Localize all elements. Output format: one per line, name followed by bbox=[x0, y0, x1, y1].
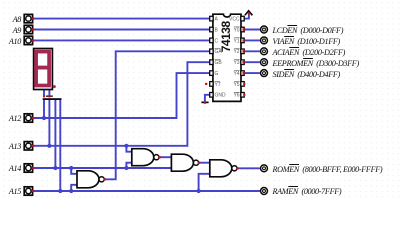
terminal RAMEN bbox=[261, 188, 268, 195]
U1 pin G2A bbox=[210, 49, 213, 54]
svg-text:GB: GB bbox=[215, 60, 223, 66]
7-segment display body bbox=[34, 49, 53, 90]
svg-text:GND: GND bbox=[215, 93, 227, 99]
svg-text:G: G bbox=[215, 71, 219, 77]
node RAMEN label bbox=[273, 186, 342, 198]
7-segment digit 8 bbox=[36, 52, 49, 86]
terminal A12 bbox=[24, 114, 34, 122]
junction A14/display bbox=[53, 166, 57, 170]
junction A14/U3 bbox=[124, 166, 128, 170]
wire A12 to G1 bbox=[34, 73, 210, 118]
wire display pin 2 bbox=[48, 90, 50, 97]
svg-text:Y3: Y3 bbox=[233, 60, 239, 66]
svg-text:Y2: Y2 bbox=[233, 49, 239, 55]
U1 pin name labels left bbox=[215, 17, 227, 99]
terminal A10 bbox=[24, 36, 34, 44]
terminal A13 bbox=[24, 142, 34, 150]
ground symbol bbox=[201, 102, 208, 104]
node A9 label bbox=[0, 25, 21, 37]
terminal A15 bbox=[24, 187, 34, 195]
U1 pin name labels right bbox=[229, 17, 240, 99]
terminal LCDEN bbox=[261, 26, 268, 33]
node A14 label bbox=[0, 163, 21, 175]
U1 pin Y6 unconnected bbox=[241, 93, 246, 98]
terminal A8 bbox=[24, 14, 34, 22]
svg-text:Y0: Y0 bbox=[233, 27, 239, 33]
node A12 label bbox=[0, 113, 21, 125]
power symbol VCC arrow bbox=[245, 11, 253, 16]
display bus bar bbox=[43, 98, 62, 100]
wire A13 tap to U3 input A bbox=[126, 146, 131, 152]
node ACIAEN label bbox=[273, 47, 346, 59]
U1 pin Y2 bbox=[241, 49, 244, 54]
svg-text:74138: 74138 bbox=[219, 21, 233, 53]
red pin-end dots bbox=[104, 12, 251, 180]
node A15 label bbox=[0, 186, 21, 198]
U1 pin overlines bbox=[215, 27, 240, 92]
wire A15 horizontal to RAMEN bbox=[34, 190, 260, 192]
wire display drop to A12 bbox=[43, 100, 45, 118]
wire display drop to A14 bbox=[54, 100, 56, 168]
junction A12/display bbox=[42, 116, 46, 120]
U1 pin Y5 unconnected bbox=[241, 82, 246, 87]
node LCDEN label bbox=[273, 25, 344, 37]
wire display drop to A15 bbox=[59, 100, 61, 191]
wire Y1 to VIAEN bbox=[244, 39, 260, 41]
junction A15/U2 bbox=[69, 189, 73, 193]
wire A14 tap to U2 input A bbox=[71, 168, 77, 174]
wire A9 horizontal bbox=[34, 29, 210, 31]
node EEPROMEN label bbox=[273, 58, 359, 70]
wire A15 to U5 input B bbox=[199, 174, 210, 191]
U1 pin Y7 unconnected bbox=[205, 82, 213, 87]
nand U2 bbox=[77, 171, 104, 188]
node A8 label bbox=[0, 14, 21, 26]
junction A13/U3 bbox=[124, 144, 128, 148]
wire A13 to G2B bbox=[34, 62, 210, 146]
wire Y4 to SIDEN bbox=[244, 72, 260, 74]
svg-text:Y5: Y5 bbox=[233, 82, 239, 88]
wire U3 output to U4 bbox=[159, 156, 172, 158]
terminal A9 bbox=[24, 25, 34, 33]
wire display pin 1 bbox=[43, 90, 45, 97]
U1 pin G1 bbox=[210, 71, 213, 76]
display pin line bbox=[46, 96, 53, 97]
wire GND pin to ground bbox=[205, 95, 210, 102]
node SIDEN label bbox=[273, 69, 340, 81]
terminal SIDEN bbox=[261, 70, 268, 77]
terminal VIAEN bbox=[261, 37, 268, 44]
U1 value 74138 bbox=[219, 21, 233, 53]
wire Y3 to EEPROMEN bbox=[244, 61, 260, 63]
node VIAEN label bbox=[273, 36, 340, 48]
wire A10 horizontal bbox=[34, 39, 210, 41]
terminal A14 bbox=[24, 164, 34, 172]
junction A15/display bbox=[58, 189, 62, 193]
U1 pin Y4 bbox=[241, 71, 244, 76]
svg-text:Y6: Y6 bbox=[233, 93, 239, 99]
wire A8 horizontal bbox=[34, 18, 210, 20]
junction A14/U2 bbox=[69, 166, 73, 170]
U1 pin GND bbox=[210, 93, 213, 98]
U1 pin Y3 bbox=[241, 60, 244, 65]
wire Y2 to ACIAEN bbox=[244, 50, 260, 52]
node A13 label bbox=[0, 141, 21, 153]
U1 pin G2B bbox=[210, 60, 213, 65]
wire Y0 to LCDEN bbox=[244, 29, 260, 31]
display pin end marks bbox=[43, 95, 51, 97]
terminal ROMEN bbox=[261, 165, 268, 172]
nand U4 bbox=[171, 154, 198, 171]
node ROMEN label bbox=[273, 164, 383, 176]
wire A14 tap to U3 input B bbox=[126, 163, 131, 168]
IC U1 74138 body bbox=[213, 14, 241, 101]
junction A15/U5 bbox=[197, 189, 201, 193]
svg-text:Y7: Y7 bbox=[215, 82, 221, 88]
display decimal point bbox=[53, 85, 56, 88]
terminal ACIAEN bbox=[261, 48, 268, 55]
svg-text:Y4: Y4 bbox=[233, 71, 239, 77]
terminal EEPROMEN bbox=[261, 59, 268, 66]
U1 pin Y1 bbox=[241, 38, 244, 43]
wire U5 output to ROMEN bbox=[237, 167, 260, 169]
U1 pin C bbox=[210, 38, 213, 43]
U1 pin B bbox=[210, 27, 213, 32]
wire display drop to A13 bbox=[48, 100, 50, 146]
nand U3 bbox=[132, 149, 159, 166]
U1 pin A bbox=[210, 16, 213, 21]
wire U2 output to G2A bbox=[104, 51, 210, 179]
U1 pin VCC bbox=[241, 16, 244, 21]
node A10 label bbox=[0, 36, 21, 48]
svg-text:Y1: Y1 bbox=[233, 38, 239, 44]
wire A15 tap to U2 input B bbox=[71, 185, 77, 191]
wire A14 horizontal bbox=[34, 167, 172, 169]
wire VCC to power bbox=[244, 13, 249, 18]
junction A13/display bbox=[47, 144, 51, 148]
nand U5 bbox=[210, 160, 237, 177]
U1 pin Y0 bbox=[241, 27, 244, 32]
wire U4 output to U5 bbox=[199, 162, 210, 164]
